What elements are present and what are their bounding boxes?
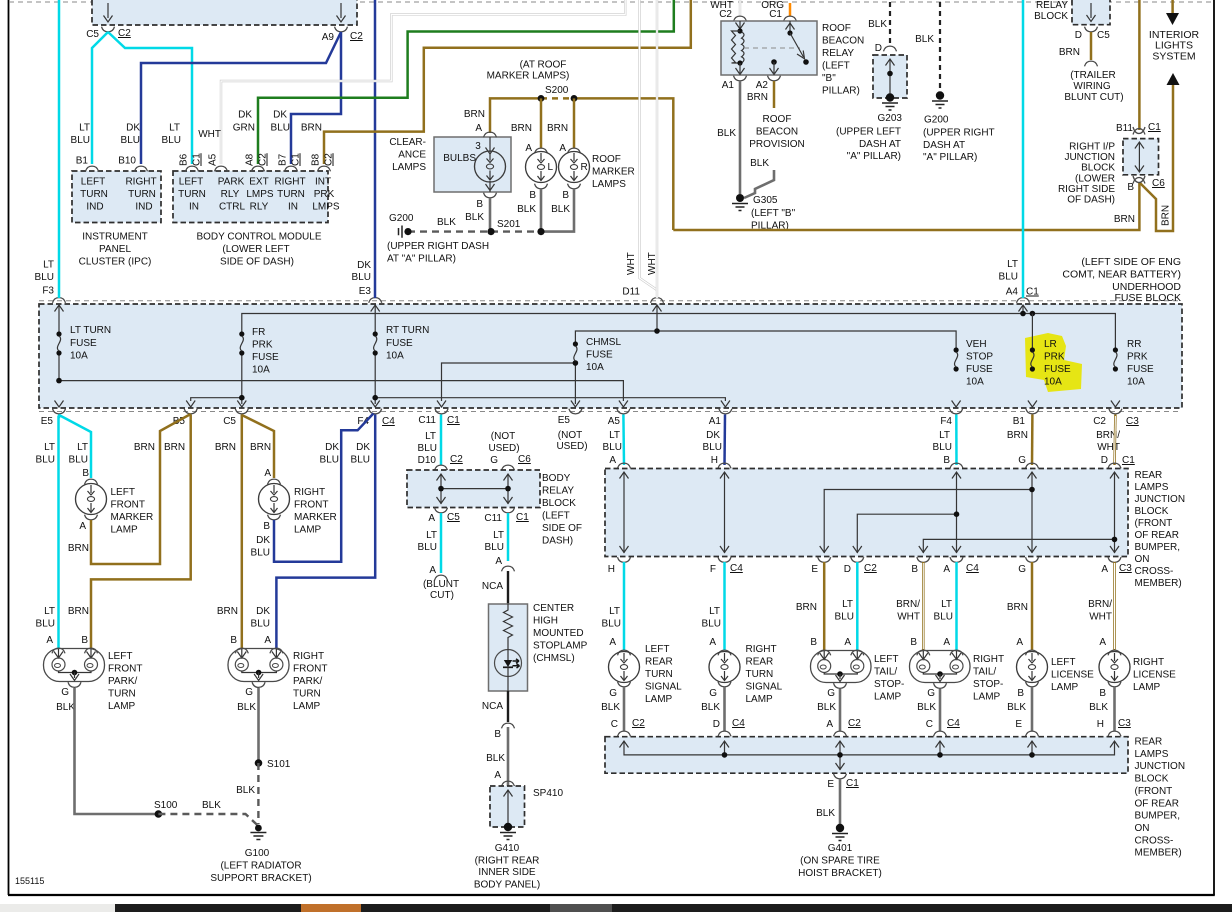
fuse RR PRK 10A [1113,347,1118,371]
svg-text:PARK/: PARK/ [293,676,322,687]
relay cup C2 [734,16,747,21]
svg-text:IND: IND [135,202,152,213]
svg-text:D: D [875,43,882,54]
svg-text:G: G [61,687,69,698]
body control module box [173,171,328,223]
svg-text:B: B [81,635,88,646]
taskbar dark segment 3 [612,904,1232,912]
BCM pin cup A5 [215,166,228,171]
svg-text:LT: LT [493,530,504,541]
svg-text:INNER SIDE: INNER SIDE [478,867,536,878]
wire BLK dashed to G200 right [939,2,941,92]
bus junction dots [722,752,728,758]
wire DK BLU from A9/C2 to BCM B7 [291,32,341,164]
right license lamp [1108,650,1121,655]
G203 cup D [884,46,897,51]
clearance cup B [484,193,497,198]
svg-text:3: 3 [475,141,481,152]
svg-text:C2: C2 [258,153,269,166]
svg-text:LAMP: LAMP [108,701,136,712]
svg-text:A2: A2 [756,80,769,91]
svg-text:USED): USED) [556,441,587,452]
svg-text:LT: LT [709,606,720,617]
svg-text:LT: LT [1007,259,1018,270]
right roof marker lamp [568,148,581,153]
svg-text:SIGNAL: SIGNAL [746,682,783,693]
svg-text:RT TURN: RT TURN [386,325,429,336]
svg-text:"A" PILLAR): "A" PILLAR) [847,151,901,162]
svg-text:G200: G200 [389,213,414,224]
svg-text:C1: C1 [1026,287,1039,298]
right tail cup G [934,683,947,688]
svg-text:DASH AT: DASH AT [859,139,901,150]
exit arrow F4 right [952,401,961,408]
svg-text:HIGH: HIGH [533,616,558,627]
svg-text:G203: G203 [878,113,903,124]
G410 ground [500,823,516,840]
svg-text:LMPS: LMPS [312,202,340,213]
svg-text:DK: DK [238,110,252,121]
G200 right ground symbol [932,91,948,108]
svg-text:CROSS-: CROSS- [1135,566,1174,577]
svg-text:B: B [263,521,270,532]
cup block E bottom [818,557,831,562]
svg-text:C4: C4 [732,718,745,729]
wire WHT left to D11 [640,0,658,290]
svg-text:BODY: BODY [542,473,571,484]
svg-text:BLOCK: BLOCK [1135,774,1169,785]
S200 dashed splice segment [541,97,574,100]
LR PRK bus junction dot [1030,311,1036,317]
svg-text:BLU: BLU [933,442,952,453]
connector cup E5 left [53,409,66,414]
wire BRN E to left tail B [823,562,826,650]
svg-text:LAMPS: LAMPS [392,162,426,173]
svg-text:LT: LT [609,606,620,617]
svg-text:JUNCTION: JUNCTION [1135,761,1186,772]
wire BLK dashed to G203 [889,2,891,45]
svg-text:FUSE: FUSE [1044,364,1071,375]
svg-text:C2: C2 [864,563,877,574]
wire BLK to SP410 [507,727,510,786]
svg-text:DK: DK [357,260,371,271]
svg-text:COMT, NEAR BATTERY): COMT, NEAR BATTERY) [1062,269,1181,281]
svg-text:LEFT: LEFT [108,651,132,662]
wire BRN roof marker left drop [540,98,543,148]
svg-text:CUT): CUT) [430,590,454,601]
svg-text:TAIL/: TAIL/ [973,667,996,678]
block internal A passthrough [623,472,625,553]
svg-text:BRN: BRN [1059,47,1080,58]
svg-text:IND: IND [86,202,103,213]
svg-text:BLK: BLK [517,204,536,215]
D11 bus junction dot [654,328,660,334]
top cropped connector box (IPC/BCM feed) [92,0,357,25]
svg-text:G: G [1018,455,1026,466]
svg-text:(LEFT RADIATOR: (LEFT RADIATOR [220,861,301,872]
LT TURN output junction dot [56,378,62,384]
svg-text:BRN: BRN [511,123,532,134]
svg-text:B6: B6 [179,153,190,166]
relay switch pole from C1 [789,21,791,33]
svg-text:FUSE: FUSE [70,338,97,349]
svg-text:PARK/: PARK/ [108,676,137,687]
connector A9/C2 mating symbol [335,27,348,32]
wire BLK to G401 [839,779,842,826]
svg-text:PRK: PRK [314,189,335,200]
svg-text:BLU: BLU [36,455,55,466]
svg-text:A: A [264,468,271,479]
svg-text:BLK: BLK [750,158,769,169]
svg-text:C2: C2 [450,454,463,465]
svg-text:RLY: RLY [221,189,240,200]
cup D10 [435,465,448,470]
right park/turn cup G [252,682,265,687]
relay switch blade [790,33,804,57]
svg-text:B: B [910,637,917,648]
S101 splice dot [255,759,263,767]
cup B11/C1 [1133,127,1145,135]
relay coil (zigzag and winding) [732,31,741,63]
svg-text:OF DASH): OF DASH) [1067,195,1115,206]
svg-text:(CHMSL): (CHMSL) [533,653,575,664]
taskbar dark segment 2 [361,904,550,912]
svg-text:SIDE OF: SIDE OF [542,523,582,534]
svg-text:MEMBER): MEMBER) [1135,578,1182,589]
svg-text:S200: S200 [545,85,569,96]
svg-text:BLK: BLK [601,702,620,713]
svg-text:A: A [943,637,950,648]
svg-text:B: B [562,190,569,201]
connector cup A5 [617,409,630,414]
svg-text:C5: C5 [86,29,99,40]
svg-text:RIGHT: RIGHT [1133,657,1164,668]
svg-text:CHMSL: CHMSL [586,337,621,348]
body relay block internal wires [441,474,508,504]
blunt cut connector [435,575,448,580]
top cropped dashed box edge [9,1,1213,3]
svg-text:BRN: BRN [747,92,768,103]
left front marker lamp [85,479,98,484]
wire NCA black to CHMSL [507,571,509,604]
svg-text:(TRAILER: (TRAILER [1070,70,1116,81]
arrow into A9/C2 connector [340,3,342,18]
svg-text:A8: A8 [245,153,256,166]
svg-text:H: H [1097,719,1104,730]
svg-text:A: A [943,564,950,575]
relay cup A2 [768,76,781,81]
svg-text:BLK: BLK [56,702,75,713]
cup block G bottom [1026,557,1039,562]
svg-text:LEFT: LEFT [874,654,898,665]
cup block G top [1026,463,1039,468]
fuse LT TURN 10A [56,331,61,355]
svg-text:BRN: BRN [301,123,322,134]
svg-text:RIGHT: RIGHT [125,177,156,188]
instrument panel cluster box [72,171,161,223]
svg-text:B: B [1127,182,1134,193]
cup block A top [618,463,631,468]
CHMSL wire to bottom [507,649,509,691]
svg-text:BLU: BLU [934,612,953,623]
wire BRN B5 to left park/turn B [91,415,191,649]
rear lamps junction block box lower [605,737,1128,774]
svg-text:H: H [608,564,615,575]
cup lower block C/C4 [934,731,947,736]
svg-text:LT: LT [77,442,88,453]
svg-text:INT: INT [315,177,331,188]
svg-text:FRONT: FRONT [293,664,327,675]
svg-text:FUSE: FUSE [386,338,413,349]
SP410 internal wire [507,790,509,824]
svg-text:BLK: BLK [917,702,936,713]
svg-text:BLU: BLU [71,135,90,146]
cup A SP410 [502,781,515,786]
svg-text:BRN/: BRN/ [896,599,920,610]
cup lower block E [1026,731,1039,736]
svg-text:ROOF: ROOF [592,154,621,165]
svg-text:RIGHT: RIGHT [294,487,325,498]
svg-text:C5: C5 [1097,30,1110,41]
svg-text:LAMPS: LAMPS [592,179,626,190]
wire ORG to relay C1 [789,3,792,16]
svg-text:TURN: TURN [277,189,305,200]
svg-text:BRN: BRN [1007,430,1028,441]
svg-text:A: A [429,565,436,576]
relay coil branch [739,21,741,28]
svg-text:S201: S201 [497,219,521,230]
svg-text:C1: C1 [1122,455,1135,466]
right front park/turn lamp [235,648,248,653]
svg-text:BRN: BRN [164,442,185,453]
cup block D top [1108,463,1121,468]
svg-text:REAR: REAR [645,657,673,668]
svg-text:BRN: BRN [547,123,568,134]
S201 dashed wire right segment [491,230,541,232]
svg-text:LT: LT [842,599,853,610]
svg-text:RIGHT: RIGHT [973,654,1004,665]
svg-text:TURN: TURN [80,189,108,200]
svg-text:A: A [494,770,501,781]
BCM pin cup B6 [186,166,199,171]
svg-text:C4: C4 [966,563,979,574]
svg-text:RIGHT I/P: RIGHT I/P [1069,142,1115,153]
svg-text:A: A [46,635,53,646]
svg-text:G: G [827,688,835,699]
right I/P junction block box [1123,139,1159,175]
svg-text:(UPPER LEFT: (UPPER LEFT [836,127,901,138]
wire LT BLU from C5/C2 to BCM B6 [108,32,192,164]
wire BLK left park/turn to S100 [75,688,159,814]
svg-text:E: E [827,779,834,790]
left roof cup B [535,184,548,189]
svg-text:TURN: TURN [645,669,673,680]
wire LT BLU C11 to body relay block D10 [440,415,443,466]
right front marker lamp [268,479,281,484]
svg-text:USED): USED) [488,443,519,454]
svg-text:BRN: BRN [68,543,89,554]
exit arrow B1 [1028,401,1037,408]
relay block cropped box [1072,0,1110,25]
svg-text:BLK: BLK [868,19,887,30]
svg-text:INSTRUMENT: INSTRUMENT [82,232,148,243]
BCM pin cup B8 [318,166,331,171]
wire WHT to relay C2 [739,0,741,16]
exit arrow C5 [237,401,246,408]
svg-text:BUMPER,: BUMPER, [1135,811,1181,822]
svg-text:OF REAR: OF REAR [1135,798,1179,809]
svg-text:B: B [230,635,237,646]
svg-text:"B": "B" [822,73,836,84]
svg-text:ANCE: ANCE [398,150,426,161]
block internal G to E branch [824,472,1032,553]
right rear turn signal lamp [718,650,731,655]
svg-text:E5: E5 [558,415,571,426]
svg-text:RELAY: RELAY [822,48,854,59]
svg-text:B: B [810,637,817,648]
cup C11/C1 [502,508,515,513]
svg-text:A: A [264,635,271,646]
arrow in relay block [1090,3,1092,18]
svg-text:MARKER: MARKER [592,167,635,178]
svg-text:BLU: BLU [418,443,437,454]
svg-text:NCA: NCA [482,581,503,592]
wire BRN trailer stub [1090,32,1093,60]
svg-text:LAMP: LAMP [293,701,321,712]
svg-text:LR: LR [1044,339,1057,350]
cup E/C1 bottom [834,774,847,779]
svg-text:BODY PANEL): BODY PANEL) [474,880,540,891]
svg-text:BLU: BLU [702,619,721,630]
wire LT BLU A to right tail A [955,562,958,650]
svg-text:LAMP: LAMP [1051,682,1079,693]
svg-text:STOP-: STOP- [874,679,904,690]
exit arrow C11 [437,401,446,408]
svg-text:WHT: WHT [897,612,920,623]
svg-text:A: A [844,637,851,648]
svg-text:HOIST BRACKET): HOIST BRACKET) [798,868,882,879]
svg-text:C3: C3 [1119,563,1132,574]
svg-text:BRN: BRN [1114,214,1135,225]
right tail/stop lamp [917,650,930,655]
wire BRN left marker A to B5 [91,414,191,564]
svg-text:A: A [826,719,833,730]
fuse LR PRK 10A [1030,347,1035,371]
svg-text:STOPLAMP: STOPLAMP [533,641,588,652]
svg-text:A: A [495,556,502,567]
svg-text:JUNCTION: JUNCTION [1064,152,1115,163]
cup block A/C4 bottom [950,557,963,562]
svg-text:SIGNAL: SIGNAL [645,682,682,693]
svg-text:RIGHT: RIGHT [274,177,305,188]
wire BRN G to left license [1031,562,1034,650]
cup block F bottom [718,557,731,562]
svg-text:BLU: BLU [162,135,181,146]
wire BRN roof marker right drop [573,98,576,148]
svg-text:WHT: WHT [1089,612,1112,623]
svg-text:BLU: BLU [69,455,88,466]
G203 internal wire [889,59,891,94]
svg-text:C11: C11 [484,513,502,524]
svg-text:A: A [1099,637,1106,648]
taskbar orange segment [301,904,361,912]
svg-text:C2: C2 [350,31,363,42]
svg-text:ROOF: ROOF [822,23,851,34]
svg-text:C1: C1 [516,512,529,523]
wire BLK right license to block [1113,687,1116,731]
lower block ground bus [624,741,1115,770]
svg-text:B: B [943,455,950,466]
connector B [502,723,515,728]
wire DK BLU A1 to block H [723,415,726,466]
svg-text:10A: 10A [70,351,88,362]
svg-text:BLK: BLK [1089,702,1108,713]
svg-text:BLK: BLK [915,34,934,45]
svg-text:C1: C1 [769,9,782,20]
svg-text:RIGHT: RIGHT [293,651,324,662]
svg-text:BLK: BLK [1007,702,1026,713]
svg-text:CLEAR-: CLEAR- [389,137,426,148]
svg-text:C2: C2 [324,153,335,166]
exit arrow C2 [1111,401,1120,408]
svg-text:G100: G100 [245,848,270,859]
svg-text:C3: C3 [1126,416,1139,427]
trailer blunt cut connector [1085,61,1098,66]
block internal H passthrough [724,472,726,553]
svg-text:LEFT: LEFT [81,177,105,188]
svg-text:B: B [1099,688,1106,699]
svg-text:FRONT: FRONT [294,500,328,511]
svg-text:(LEFT: (LEFT [822,61,850,72]
fuse VEH STOP 10A [954,347,959,371]
fuse block connector face dashed line bottom [39,411,1182,413]
svg-text:R: R [581,162,588,173]
diagram right border [1213,0,1215,895]
svg-text:PRK: PRK [1044,352,1065,363]
left license lamp [1026,650,1039,655]
svg-text:ON: ON [1135,823,1150,834]
svg-text:BLU: BLU [121,135,140,146]
svg-text:S101: S101 [267,759,291,770]
svg-text:D: D [1101,455,1108,466]
svg-text:BLU: BLU [703,442,722,453]
svg-text:(ON SPARE TIRE: (ON SPARE TIRE [800,856,880,867]
FR PRK output junction dot [239,395,245,401]
G203 ground symbol [882,93,898,110]
wire LT BLU F to right rear turn [723,562,726,650]
CHMSL output junction dot [573,360,579,366]
connector cup B5 [184,409,197,414]
svg-text:BEACON: BEACON [756,127,798,138]
svg-text:BLOCK: BLOCK [542,498,576,509]
S200 splice dot right [571,95,578,102]
svg-text:BLU: BLU [352,272,371,283]
rear lamps junction block box upper [605,469,1128,557]
RT TURN output junction dot [372,395,378,401]
taskbar light segment [0,904,115,912]
svg-text:IN: IN [189,202,199,213]
svg-text:(LOWER: (LOWER [1075,174,1115,185]
clearance bulb [489,137,491,152]
bus feeding CHMSL/VEH STOP fuses [575,331,956,349]
svg-text:BRN/: BRN/ [1088,599,1112,610]
svg-text:B1: B1 [1013,416,1026,427]
svg-text:BRN: BRN [215,442,236,453]
svg-text:BUMPER,: BUMPER, [1135,542,1181,553]
svg-text:LMPS: LMPS [246,189,274,200]
svg-text:LAMP: LAMP [645,694,673,705]
exit arrow E5 mid [571,401,580,408]
